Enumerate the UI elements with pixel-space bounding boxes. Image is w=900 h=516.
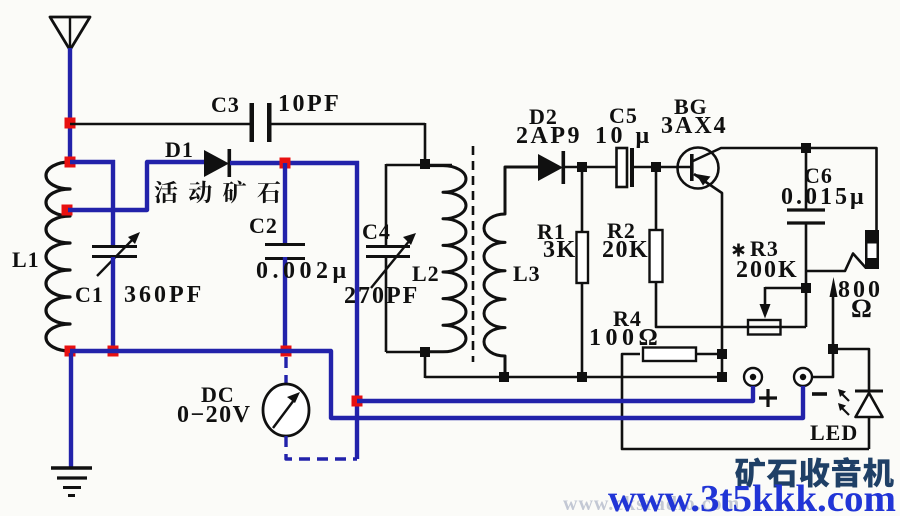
LED bbox=[855, 390, 883, 393]
wire R2 bottom bbox=[656, 282, 748, 327]
svg-text:100Ω: 100Ω bbox=[589, 325, 662, 351]
svg-text:L1: L1 bbox=[12, 247, 40, 272]
wire R3 wiper bbox=[765, 287, 806, 290]
node base net junction 1 bbox=[577, 162, 587, 172]
wire voltmeter bottom (blue dashed) bbox=[286, 436, 357, 459]
wire C5 to base bbox=[634, 166, 690, 169]
resistor R1 bbox=[577, 232, 589, 283]
wire C2 upper (blue) bbox=[283, 163, 287, 246]
label banner chinese bbox=[735, 457, 765, 487]
svg-text:www.3t5kkk.com: www.3t5kkk.com bbox=[608, 478, 896, 516]
resistor R2 bbox=[650, 230, 663, 282]
transistor base bar bbox=[690, 154, 694, 181]
wire junction to minus terminal bbox=[812, 349, 833, 377]
node tank bottom junction bbox=[420, 347, 430, 357]
inductor L3 bbox=[484, 167, 538, 377]
svg-text:0.002μ: 0.002μ bbox=[256, 258, 351, 284]
wire earphone zigzag bbox=[806, 254, 866, 272]
node L3 bottom junction bbox=[499, 372, 509, 382]
arrow to earphone wire bbox=[832, 293, 835, 350]
node base net junction 2 bbox=[651, 162, 661, 172]
svg-text:200K: 200K bbox=[736, 257, 799, 283]
svg-text:LED: LED bbox=[810, 420, 858, 445]
transistor collector bbox=[693, 148, 877, 231]
svg-text:360PF: 360PF bbox=[124, 282, 204, 308]
wire battery box bbox=[622, 354, 869, 449]
resistor R4 bbox=[643, 348, 696, 362]
terminal plus bbox=[744, 368, 762, 386]
node L1 bottom junction bbox=[65, 346, 76, 357]
svg-text:0−20V: 0−20V bbox=[177, 402, 252, 428]
svg-text:C1: C1 bbox=[75, 282, 104, 307]
wire C3 left lead bbox=[70, 123, 251, 126]
svg-text:C3: C3 bbox=[211, 92, 240, 117]
wire detector output vertical (blue) bbox=[355, 161, 359, 459]
diode D1 bbox=[204, 150, 229, 177]
svg-text:L2: L2 bbox=[412, 261, 440, 286]
inductor L2 bbox=[425, 166, 466, 352]
node C1 bottom junction bbox=[108, 346, 119, 357]
wire junction to LED bbox=[833, 349, 869, 391]
wire D1 cathode (blue) bbox=[230, 161, 359, 165]
node collector rail junction bbox=[801, 143, 811, 153]
terminal minus bbox=[794, 368, 812, 386]
diode D2 bbox=[538, 154, 563, 181]
capacitor C5 bbox=[617, 148, 628, 187]
svg-text:L3: L3 bbox=[513, 261, 541, 286]
earphone plug 800ohm bbox=[865, 230, 879, 269]
node LED junction bbox=[828, 344, 838, 354]
antenna bbox=[50, 17, 90, 50]
wire to ground (blue) bbox=[69, 353, 73, 468]
node R1 bottom junction bbox=[577, 372, 587, 382]
wire L1 top to C1 bbox=[70, 160, 115, 164]
label crystal text bbox=[155, 181, 178, 203]
transistor emitter bbox=[694, 174, 722, 377]
wire C1 branch lower (blue) bbox=[111, 257, 115, 353]
wire antenna to L1 (blue) bbox=[68, 48, 72, 163]
capacitor C6 bbox=[787, 208, 825, 211]
svg-text:C2: C2 bbox=[249, 213, 278, 238]
wire bottom rail bbox=[424, 352, 427, 378]
transformer core bbox=[472, 146, 475, 362]
LED arrows bbox=[841, 393, 849, 401]
resistor R3 bbox=[748, 326, 806, 329]
wire C6 top bbox=[805, 148, 808, 210]
wire R1 bottom bbox=[581, 283, 584, 378]
svg-text:D1: D1 bbox=[165, 137, 194, 162]
label plus sign bbox=[759, 396, 777, 399]
node emitter rail junction bbox=[717, 372, 727, 382]
node L1 top junction bbox=[65, 157, 76, 168]
voltmeter DC bbox=[263, 384, 309, 436]
wire tap to D1 (blue) bbox=[68, 162, 206, 210]
wire C1 branch upper (blue) bbox=[111, 160, 115, 248]
svg-text:0.015μ: 0.015μ bbox=[781, 184, 867, 210]
wire plus rail (blue) bbox=[357, 386, 753, 401]
svg-text:C4: C4 bbox=[362, 219, 391, 244]
wire R1 top bbox=[581, 167, 584, 233]
wire R2 top bbox=[655, 167, 658, 231]
node C3/C4/L2 junction bbox=[420, 159, 430, 169]
svg-text:Ω: Ω bbox=[851, 294, 873, 323]
wire C4 lower bbox=[385, 256, 388, 352]
transistor BG circle bbox=[678, 148, 719, 189]
node L1 tap junction bbox=[62, 205, 73, 216]
svg-text:3K: 3K bbox=[543, 237, 577, 263]
label minus sign bbox=[812, 392, 827, 396]
svg-text:10PF: 10PF bbox=[278, 91, 341, 117]
inductor L1 bbox=[46, 162, 70, 351]
wire R4 right lead bbox=[696, 353, 722, 356]
wire C4 upper bbox=[385, 164, 388, 247]
wire ground rail (blue) bbox=[70, 351, 803, 418]
capacitor C3 bbox=[250, 103, 255, 142]
wire C2 lower (blue) bbox=[283, 257, 287, 353]
node C6 bottom junction bbox=[801, 283, 811, 293]
wire D2 to C5 bbox=[564, 166, 618, 169]
node C2 bottom junction bbox=[281, 346, 292, 357]
capacitor C1 variable bbox=[92, 245, 137, 248]
svg-text:10 μ: 10 μ bbox=[595, 123, 653, 149]
node antenna junction bbox=[65, 118, 76, 129]
svg-text:270PF: 270PF bbox=[344, 283, 419, 309]
svg-text:3AX4: 3AX4 bbox=[661, 113, 728, 139]
node detector/+ junction bbox=[352, 396, 363, 407]
node D1 output junction bbox=[280, 158, 291, 169]
wire C6 bottom bbox=[805, 223, 808, 327]
svg-text:2AP9: 2AP9 bbox=[516, 123, 582, 149]
wire voltmeter top (blue dashed) bbox=[284, 357, 287, 385]
capacitor C4 variable bbox=[366, 245, 410, 248]
wire tank top bbox=[386, 164, 452, 167]
ground bbox=[51, 466, 92, 469]
node emitter/R4 junction bbox=[717, 349, 727, 359]
capacitor C2 bbox=[265, 243, 305, 246]
svg-text:20K: 20K bbox=[602, 237, 649, 263]
wire C3 right lead bbox=[271, 123, 425, 126]
